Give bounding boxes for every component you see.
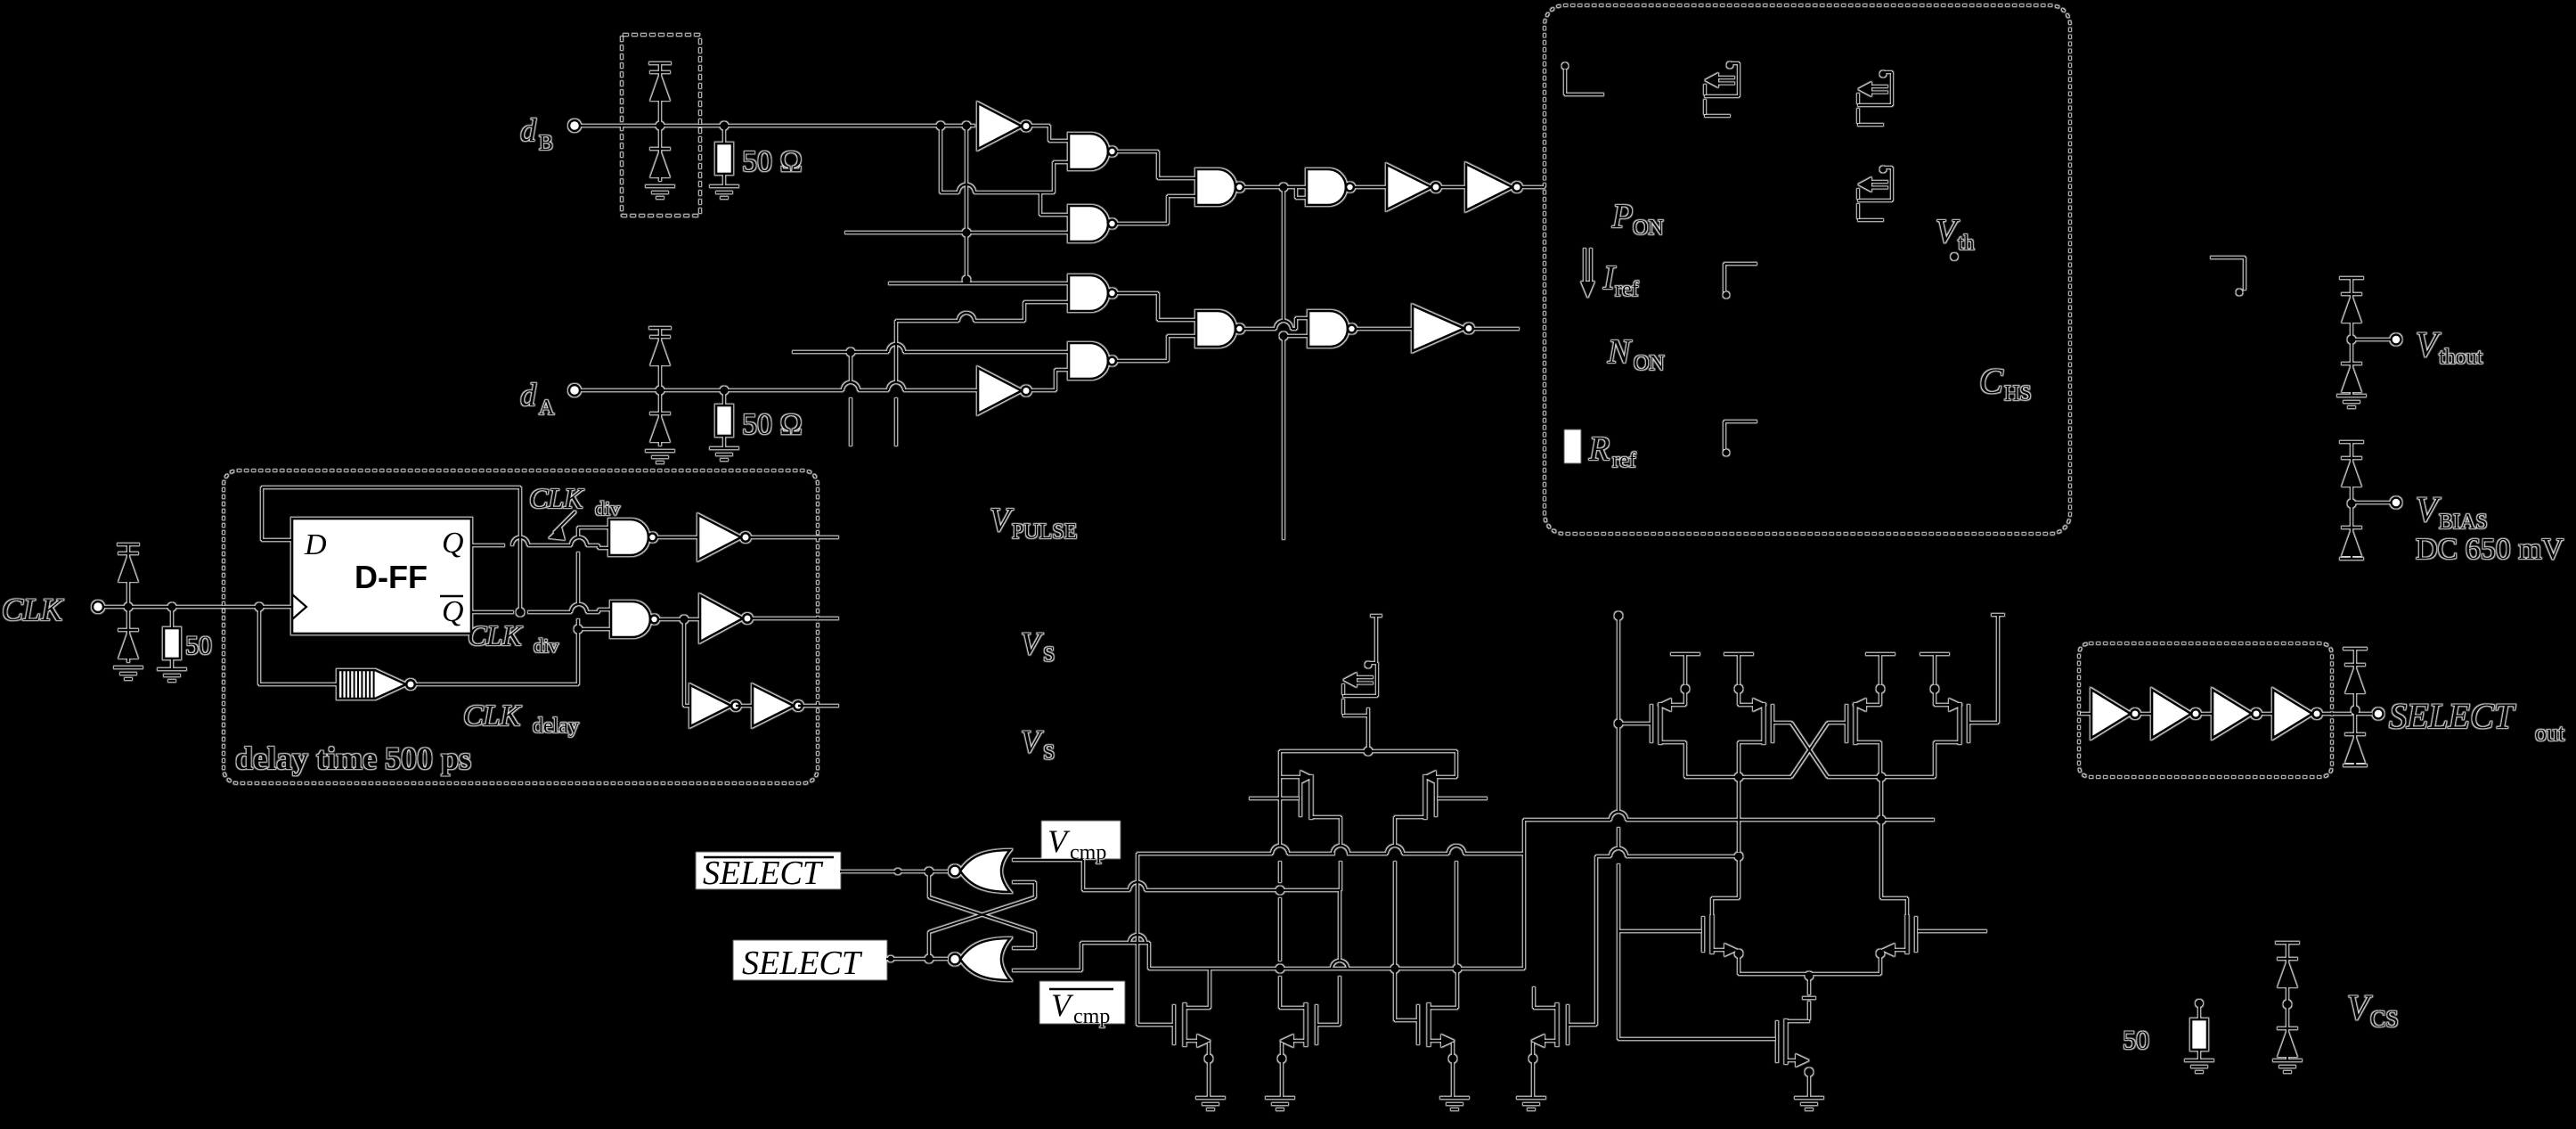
svg-text:A: A (539, 397, 555, 420)
svg-text:DC 650 mV: DC 650 mV (2416, 533, 2564, 566)
svg-text:50 Ω: 50 Ω (742, 145, 803, 178)
svg-text:CLK: CLK (529, 482, 584, 514)
svg-text:ref: ref (1612, 449, 1636, 472)
svg-text:50: 50 (185, 631, 212, 660)
svg-text:P: P (1611, 198, 1633, 235)
svg-text:ref: ref (1615, 278, 1639, 301)
svg-text:50: 50 (2123, 1026, 2149, 1055)
svg-text:delay: delay (533, 715, 579, 738)
svg-text:thout: thout (2439, 346, 2483, 369)
svg-text:Q: Q (442, 595, 464, 628)
svg-text:B: B (539, 132, 553, 155)
svg-text:C: C (1979, 361, 2004, 401)
svg-text:CS: CS (2370, 1006, 2399, 1032)
svg-text:CLK: CLK (2, 592, 64, 627)
svg-text:CLK: CLK (468, 619, 523, 651)
svg-text:th: th (1958, 232, 1975, 255)
svg-text:N: N (1607, 333, 1633, 371)
svg-text:ON: ON (1633, 217, 1664, 240)
svg-text:cmp: cmp (1073, 1005, 1110, 1028)
svg-text:HS: HS (2004, 382, 2032, 405)
svg-text:R: R (1588, 430, 1610, 468)
svg-text:PULSE: PULSE (1012, 520, 1077, 544)
svg-text:out: out (2535, 720, 2565, 746)
svg-text:d: d (520, 377, 537, 413)
svg-text:SELECT: SELECT (703, 855, 824, 892)
svg-text:S: S (1043, 643, 1055, 667)
svg-text:V: V (1936, 213, 1960, 250)
svg-text:SELECT: SELECT (2389, 696, 2516, 736)
svg-text:ON: ON (1634, 352, 1665, 375)
svg-text:50 Ω: 50 Ω (742, 408, 803, 441)
svg-text:SELECT: SELECT (742, 945, 863, 982)
svg-text:Q: Q (442, 527, 464, 560)
svg-text:S: S (1043, 741, 1055, 765)
svg-text:V: V (990, 502, 1014, 539)
svg-text:CLK: CLK (463, 699, 523, 732)
svg-text:cmp: cmp (1070, 841, 1106, 864)
svg-text:d: d (520, 112, 537, 148)
svg-text:BIAS: BIAS (2439, 511, 2488, 534)
svg-text:div: div (595, 497, 620, 520)
svg-text:delay time 500 ps: delay time 500 ps (235, 740, 471, 776)
svg-text:D: D (304, 528, 327, 561)
svg-text:D-FF: D-FF (355, 559, 428, 595)
svg-text:div: div (534, 634, 558, 657)
